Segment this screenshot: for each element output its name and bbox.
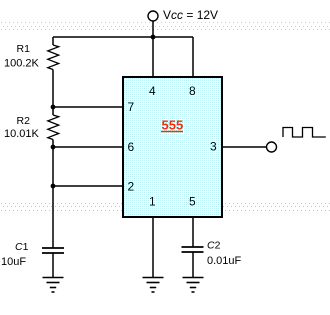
- wire to pin 2: [53, 185, 122, 187]
- capacitor C2: [182, 246, 204, 248]
- node junction pin2/C1: [51, 184, 56, 189]
- wire down to C1: [52, 186, 54, 248]
- wire pin 8 stub: [192, 37, 194, 76]
- dotted artifact band middle: [1, 204, 330, 211]
- wire R2 bottom lead: [52, 140, 54, 148]
- svg-text:10.01K: 10.01K: [4, 128, 40, 140]
- svg-text:2: 2: [128, 180, 135, 194]
- op-amp U1 555 IC body: [123, 77, 222, 217]
- resistor R1: [48, 45, 59, 70]
- wire R1 bottom lead: [52, 70, 54, 108]
- resistor R2: [48, 115, 59, 140]
- wire Vcc vertical: [152, 22, 154, 38]
- svg-text:Vcc = 12V: Vcc = 12V: [163, 8, 218, 22]
- wire down to pin2 node: [52, 147, 54, 186]
- svg-text:100.2K: 100.2K: [4, 58, 40, 70]
- wire C2 to ground: [192, 252, 194, 277]
- terminal Vcc circle: [148, 11, 158, 21]
- svg-text:R2: R2: [17, 115, 31, 127]
- svg-text:0.01uF: 0.01uF: [207, 255, 242, 267]
- wire C1 to ground: [52, 253, 54, 277]
- svg-text:1: 1: [149, 195, 156, 209]
- wire to pin 6: [53, 146, 122, 148]
- svg-text:7: 7: [128, 100, 135, 114]
- square wave symbol: [283, 128, 326, 138]
- svg-text:3: 3: [210, 140, 217, 154]
- ground under pin 1: [143, 278, 164, 293]
- svg-text:10uF: 10uF: [1, 256, 26, 268]
- wire pin 3 output: [223, 146, 267, 148]
- wire to pin 7: [53, 106, 122, 108]
- wire top rail y=37: [53, 36, 193, 38]
- wire pin 4 stub: [152, 37, 154, 76]
- node junction R1/R2: [51, 105, 56, 110]
- node junction at Vcc rail: [151, 35, 156, 40]
- svg-text:5: 5: [189, 195, 196, 209]
- svg-text:8: 8: [189, 84, 196, 98]
- svg-text:6: 6: [128, 140, 135, 154]
- wire R2 top lead: [52, 107, 54, 115]
- ground under C2: [183, 278, 204, 293]
- ground under C1: [43, 278, 64, 293]
- svg-text:C2: C2: [207, 240, 221, 252]
- svg-text:555: 555: [162, 118, 184, 133]
- node junction R2/pin6: [51, 145, 56, 150]
- wire R1 top lead: [52, 37, 54, 45]
- svg-text:R1: R1: [17, 43, 31, 55]
- capacitor C1: [42, 247, 64, 249]
- wire pin 1 stub to ground: [152, 217, 154, 277]
- terminal output circle: [267, 142, 277, 152]
- dotted artifact band top: [1, 23, 330, 30]
- svg-text:C1: C1: [15, 241, 29, 253]
- svg-text:4: 4: [149, 84, 156, 98]
- wire pin 5 stub to C2: [192, 217, 194, 247]
